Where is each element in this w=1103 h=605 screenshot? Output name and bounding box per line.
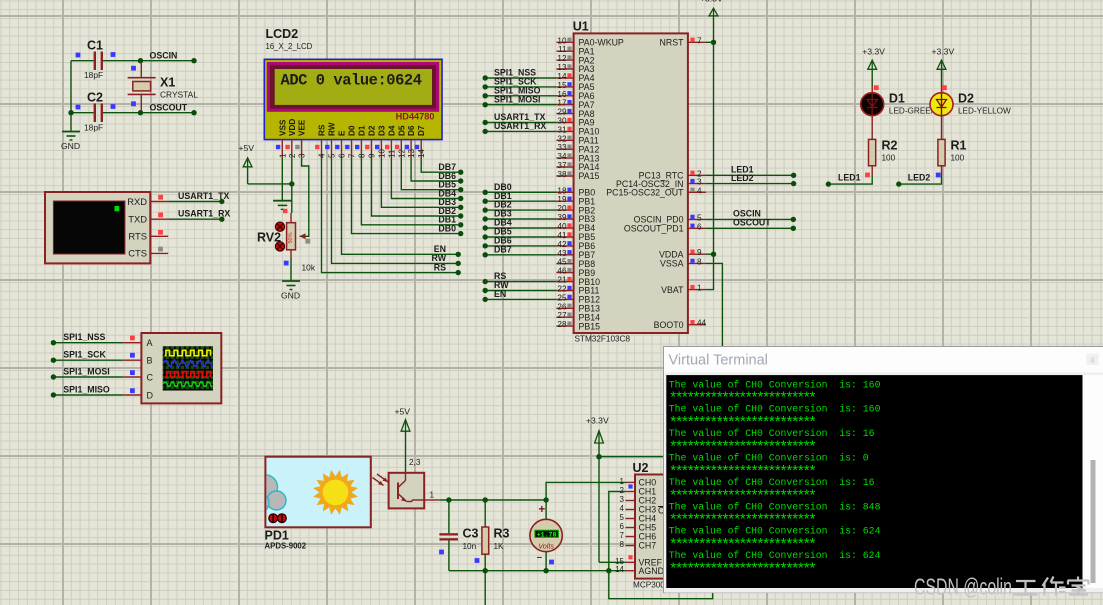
wire DB5 (LCD side) — [401, 158, 460, 190]
wire DB7 (U1 side) — [485, 254, 556, 256]
wire OSCOUT (U1 side) — [706, 227, 793, 229]
ground (LCD VSS) — [273, 200, 292, 202]
pin CTS stub — [150, 252, 168, 254]
svg-text:Volts: Volts — [538, 542, 554, 551]
svg-text:SPI1_MOSI: SPI1_MOSI — [494, 94, 540, 104]
crystal X1 — [140, 62, 142, 78]
resistor R3 1K — [484, 500, 486, 527]
svg-text:9: 9 — [368, 153, 377, 158]
svg-text:11: 11 — [387, 149, 396, 158]
svg-text:SPI1_SCK: SPI1_SCK — [63, 350, 106, 360]
wire +3.3V to D2 — [941, 69, 943, 86]
svg-text:41: 41 — [557, 231, 567, 240]
U1 pin PC13_RTC (2) — [688, 174, 706, 176]
wire USART1_TX — [168, 201, 222, 203]
pin D stub — [123, 394, 141, 396]
U2 pin CH0 (1) — [625, 481, 635, 483]
wire DB2 (LCD side) — [372, 158, 461, 216]
svg-text:EN: EN — [494, 289, 506, 299]
potentiometer RV2 — [290, 213, 292, 223]
wire CH1 to AGND — [609, 492, 626, 571]
U1 pin PB3 (39) — [556, 218, 573, 220]
U1 pin PA13 (34) — [556, 157, 573, 159]
wire DB0 (U1 side) — [485, 191, 556, 193]
light arrows from PD1 to phototransistor — [373, 478, 384, 486]
wire VREF horizontal — [599, 561, 625, 563]
wire SPI1_NSS (U1 side) — [485, 77, 556, 79]
svg-text:6: 6 — [620, 522, 625, 531]
svg-text:5: 5 — [620, 513, 625, 522]
svg-text:D1: D1 — [357, 125, 366, 136]
Virtual Terminal window — [664, 347, 1103, 593]
wire SPI1_NSS (left) — [53, 342, 123, 344]
svg-text:1: 1 — [278, 153, 287, 158]
svg-text:3: 3 — [298, 153, 307, 158]
U1 pin PB7 (43) — [556, 254, 573, 256]
U1 pin PA11 (32) — [556, 139, 573, 141]
svg-text:+3.3V: +3.3V — [700, 0, 723, 4]
U1 pin PA2 (12) — [556, 59, 573, 61]
wire DB7 (LCD side) — [421, 158, 461, 172]
U1 pin PA1 (11) — [556, 50, 573, 52]
U1 pin VBAT (1) — [688, 289, 706, 291]
svg-text:5: 5 — [697, 213, 702, 222]
wire +5V to LCD pin2 — [248, 183, 292, 185]
svg-text:29: 29 — [557, 108, 567, 117]
wire DB6 (LCD side) — [411, 158, 461, 181]
wire DB3 (LCD side) — [381, 158, 460, 207]
pin 1 stub — [424, 499, 440, 501]
U1 pin PA6 (16) — [556, 95, 573, 97]
U1 pin PB4 (40) — [556, 227, 573, 229]
svg-text:14: 14 — [615, 565, 624, 574]
svg-text:+: + — [539, 504, 546, 516]
wire OSCIN (U1 side) — [706, 218, 793, 220]
svg-text:8: 8 — [357, 153, 366, 158]
svg-text:18pF: 18pF — [84, 70, 103, 80]
svg-text:The value of CH0 Conversion i: The value of CH0 Conversion is: 624 — [669, 526, 881, 537]
wire OSCOUT — [141, 112, 195, 114]
svg-text:D4: D4 — [387, 125, 396, 136]
wire LCD pin2 VDD — [291, 158, 293, 184]
phototransistor Q1 — [389, 473, 425, 509]
scope trace blue — [164, 360, 213, 368]
svg-text:RTS: RTS — [128, 231, 147, 242]
wire SPI1_SCK (U1 side) — [485, 86, 556, 88]
svg-text:+3.3V: +3.3V — [586, 416, 609, 426]
scope trace red — [165, 372, 211, 378]
svg-text:22: 22 — [557, 285, 567, 294]
pin RTS stub — [150, 235, 168, 237]
wire DB3 (U1 side) — [485, 218, 556, 220]
U1 pin PB12 (25) — [556, 298, 573, 300]
svg-text:34: 34 — [557, 152, 567, 161]
pin TXD stub — [150, 218, 168, 220]
svg-text:1K: 1K — [494, 542, 505, 551]
svg-text:38: 38 — [557, 170, 567, 179]
U1 pin PA3 (13) — [556, 68, 573, 70]
svg-text:USART1_RX: USART1_RX — [178, 209, 230, 219]
wire DB1 (LCD side) — [361, 158, 460, 225]
wire USART1_RX (U1 side) — [485, 130, 556, 132]
U1 pin PC15-OSC32_OUT (4) — [688, 191, 706, 193]
wire USART1_TX (U1 side) — [485, 122, 556, 124]
svg-text:43: 43 — [557, 249, 567, 258]
U1 pin PA10 (31) — [556, 130, 573, 132]
svg-text:D2: D2 — [368, 125, 377, 136]
wire DB2 (U1 side) — [485, 209, 556, 211]
svg-text:D7: D7 — [417, 125, 426, 136]
wire RW (LCD side) — [332, 158, 459, 263]
svg-text:D1: D1 — [889, 92, 905, 106]
svg-text:RW: RW — [328, 122, 337, 136]
U1 pin VDDA (9) — [688, 253, 706, 255]
U1 pin PB10 (21) — [556, 281, 573, 283]
svg-text:3: 3 — [620, 495, 625, 504]
svg-text:CSDN @colin: CSDN @colin — [914, 574, 1012, 600]
wire EN (U1 side) — [485, 298, 556, 300]
capacitor C2 — [94, 104, 96, 123]
U2 pin CH3 (4) — [625, 509, 635, 511]
svg-text:OSCOUT: OSCOUT — [733, 218, 771, 228]
U1 pin PC14-OSC32_IN (3) — [688, 183, 706, 185]
svg-text:2,3: 2,3 — [409, 458, 421, 467]
svg-text:+3.3V: +3.3V — [932, 47, 955, 57]
U1 pin PB11 (22) — [556, 290, 573, 292]
svg-text:D5: D5 — [397, 125, 406, 136]
svg-text:CRYSTAL: CRYSTAL — [160, 90, 198, 100]
svg-text:U2: U2 — [633, 461, 649, 475]
svg-text:NRST: NRST — [660, 38, 685, 48]
U1 pin PB13 (26) — [556, 307, 573, 309]
svg-text:19: 19 — [557, 195, 567, 204]
svg-text:1: 1 — [620, 477, 625, 486]
svg-text:7: 7 — [348, 153, 357, 158]
LED D2 LED-YELLOW — [930, 93, 953, 116]
svg-text:LCD2: LCD2 — [266, 27, 299, 41]
svg-text:U1: U1 — [573, 20, 589, 34]
svg-text:The value of CH0 Conversion i: The value of CH0 Conversion is: 160 — [669, 404, 881, 415]
svg-text:21: 21 — [557, 276, 567, 285]
U2 pin CH5 (6) — [625, 527, 635, 529]
svg-text:10: 10 — [557, 36, 567, 45]
svg-text:50%: 50% — [288, 232, 294, 243]
U1 pin PA5 (15) — [556, 86, 573, 88]
svg-text:VSS: VSS — [278, 119, 287, 136]
svg-text:6: 6 — [338, 153, 347, 158]
svg-text:CTS: CTS — [128, 248, 147, 259]
U1 pin PB1 (19) — [556, 200, 573, 202]
wire LCD pin3 VEE to RV2 wiper — [300, 158, 309, 236]
wire CH0 from node — [546, 482, 625, 500]
wire sensor output node — [440, 499, 546, 501]
svg-text:2: 2 — [288, 153, 297, 158]
U1 pin OSCOUT_PD1 (6) — [688, 227, 706, 229]
svg-text:VBAT: VBAT — [661, 285, 684, 295]
U1 pin PB0 (18) — [556, 191, 573, 193]
U1 pin PB14 (27) — [556, 316, 573, 318]
svg-text:LED-GREEN: LED-GREEN — [889, 107, 937, 116]
light sensor PD1 APDS-9002 — [251, 457, 371, 528]
svg-text:31: 31 — [557, 125, 567, 134]
svg-text:1: 1 — [697, 284, 702, 293]
svg-text:LED2: LED2 — [731, 173, 754, 183]
svg-text:The value of CH0 Conversion i: The value of CH0 Conversion is: 16 — [669, 477, 875, 488]
node VDDA junction — [711, 252, 716, 257]
U2 pin CH1 (2) — [625, 491, 635, 493]
svg-text:The value of CH0 Conversion i: The value of CH0 Conversion is: 848 — [669, 501, 881, 512]
svg-text:RS: RS — [318, 124, 327, 136]
capacitor C3 10n — [448, 500, 450, 533]
svg-text:14: 14 — [557, 72, 567, 81]
svg-text:OSCOUT: OSCOUT — [150, 103, 188, 113]
wire LED1 (U1 side) — [706, 174, 794, 176]
svg-text:SPI1_MOSI: SPI1_MOSI — [63, 367, 109, 377]
U2 pin AGND (14) — [625, 570, 635, 572]
wire RW (U1 side) — [485, 290, 556, 292]
U1 pin PA8 (29) — [556, 113, 573, 115]
U2 pin VREF (15) — [625, 561, 635, 563]
wire LED2 (LED side) — [941, 166, 943, 176]
watermark CSDN — [914, 574, 1089, 600]
svg-text:+5V: +5V — [395, 407, 411, 417]
U1 pin PA12 (33) — [556, 148, 573, 150]
svg-text:D: D — [147, 391, 154, 401]
U1 pin PB9 (46) — [556, 272, 573, 274]
oscilloscope instrument (SPI debugger) — [141, 333, 221, 403]
pin B stub — [123, 359, 141, 361]
svg-text:46: 46 — [557, 267, 567, 276]
svg-text:5: 5 — [328, 153, 337, 158]
svg-text:The value of CH0 Conversion i: The value of CH0 Conversion is: 0 — [669, 453, 869, 464]
svg-text:OSCOUT_PD1: OSCOUT_PD1 — [624, 224, 684, 234]
svg-text:28: 28 — [557, 320, 567, 329]
svg-text:−: − — [537, 553, 543, 564]
svg-text:*************************: ************************* — [669, 562, 816, 579]
svg-text:26: 26 — [557, 302, 567, 311]
svg-text:PB15: PB15 — [579, 321, 601, 331]
U1 pin OSCIN_PD0 (5) — [688, 218, 706, 220]
svg-text:USART1_TX: USART1_TX — [178, 191, 229, 201]
node junction C2-GND rail — [68, 110, 73, 115]
U1 pin PA7 (17) — [556, 104, 573, 106]
svg-text:D2: D2 — [958, 92, 974, 106]
svg-text:EN: EN — [434, 244, 446, 254]
wire LCD pin1 VSS to ground — [281, 158, 283, 201]
ground GND (crystal) — [62, 131, 80, 133]
svg-text:+5V: +5V — [239, 143, 255, 153]
svg-text:HD44780: HD44780 — [396, 112, 435, 122]
voltmeter (Volts) — [545, 500, 547, 519]
svg-text:Virtual Terminal: Virtual Terminal — [669, 353, 768, 369]
U1 pin PA4 (14) — [556, 77, 573, 79]
U1 pin PB8 (45) — [556, 263, 573, 265]
wire voltmeter to AGND rail — [545, 552, 547, 571]
svg-text:4: 4 — [318, 153, 327, 158]
wire +3.3V to U2 VDD (behind terminal) — [599, 456, 665, 458]
svg-text:RXD: RXD — [127, 196, 147, 207]
svg-text:A: A — [147, 338, 153, 348]
svg-text:PD1: PD1 — [265, 529, 289, 543]
svg-text:10k: 10k — [302, 263, 316, 273]
svg-text:GND: GND — [281, 291, 300, 301]
pin A stub — [123, 342, 141, 344]
wire AGND rail — [449, 570, 626, 572]
svg-text:x: x — [1090, 355, 1095, 365]
U2 pin CH4 (5) — [625, 518, 635, 520]
wire D1 to resistor — [871, 115, 873, 139]
svg-text:44: 44 — [697, 319, 707, 328]
svg-text:7: 7 — [620, 531, 625, 540]
svg-text:D0: D0 — [348, 125, 357, 136]
svg-text:10: 10 — [377, 149, 386, 158]
svg-text:AGND: AGND — [639, 566, 664, 576]
svg-text:4: 4 — [620, 504, 625, 513]
svg-text:LED1: LED1 — [838, 173, 861, 183]
scope trace yellow — [165, 350, 211, 355]
svg-text:7: 7 — [697, 36, 702, 45]
svg-text:The value of CH0 Conversion i: The value of CH0 Conversion is: 624 — [669, 550, 881, 561]
svg-text:BOOT0: BOOT0 — [654, 320, 684, 330]
wire DB6 (U1 side) — [485, 245, 556, 247]
svg-text:GND: GND — [61, 141, 80, 151]
virtual terminal instrument VT1 — [45, 192, 150, 263]
svg-text:4: 4 — [697, 186, 702, 195]
wire +5V to phototransistor — [405, 431, 407, 473]
svg-text:9: 9 — [697, 248, 702, 257]
svg-text:39: 39 — [557, 213, 567, 222]
scope trace green — [164, 382, 213, 387]
resistor R2 100 — [869, 139, 876, 165]
svg-text:C2: C2 — [87, 91, 103, 105]
wire SPI1_MOSI (left) — [53, 376, 123, 378]
svg-text:DB7: DB7 — [494, 244, 512, 254]
U2 pin CH6 (7) — [625, 536, 635, 538]
svg-text:15: 15 — [557, 81, 567, 90]
svg-text:PA15: PA15 — [579, 171, 600, 181]
svg-text:C3: C3 — [463, 527, 479, 541]
svg-text:+3.3V: +3.3V — [862, 47, 885, 57]
svg-text:CH7: CH7 — [639, 541, 657, 551]
RV2 bottom to ground — [290, 250, 292, 258]
U1 pin PB5 (41) — [556, 236, 573, 238]
svg-text:12: 12 — [397, 149, 406, 158]
svg-text:R1: R1 — [951, 139, 967, 153]
svg-text:8: 8 — [620, 540, 625, 549]
svg-text:16: 16 — [557, 90, 567, 99]
wire USART1_RX — [168, 218, 222, 220]
wire SPI1_SCK (left) — [53, 359, 123, 361]
svg-text:8: 8 — [697, 257, 702, 266]
svg-text:PC15-OSC32_OUT: PC15-OSC32_OUT — [606, 188, 684, 198]
svg-text:45: 45 — [557, 258, 567, 267]
svg-text:R3: R3 — [494, 527, 510, 541]
svg-text:LED-YELLOW: LED-YELLOW — [958, 107, 1011, 116]
svg-text:100: 100 — [951, 154, 965, 163]
svg-text:SPI1_MISO: SPI1_MISO — [63, 385, 110, 395]
wire SPI1_MOSI (U1 side) — [485, 104, 556, 106]
svg-text:14: 14 — [417, 149, 426, 158]
svg-text:18pF: 18pF — [84, 123, 103, 133]
svg-text:12: 12 — [557, 54, 567, 63]
U1 pin BOOT0 (44) — [688, 324, 706, 326]
svg-text:30: 30 — [557, 117, 567, 126]
svg-text:APDS-9002: APDS-9002 — [265, 542, 307, 551]
svg-text:16_X_2_LCD: 16_X_2_LCD — [266, 42, 313, 51]
wire +3.3V vertical rail to VDDA and VBAT — [706, 16, 714, 290]
svg-text:TXD: TXD — [128, 214, 147, 225]
svg-text:40: 40 — [557, 222, 567, 231]
svg-text:6: 6 — [697, 222, 702, 231]
svg-text:B: B — [147, 356, 153, 366]
svg-text:C1: C1 — [87, 39, 103, 53]
LCD2 16x2 display body — [264, 59, 442, 139]
wire +3.3V to D1 — [871, 69, 873, 86]
wire DB4 (U1 side) — [485, 227, 556, 229]
wire VSSA down to analog ground — [706, 263, 722, 347]
svg-text:ADC 0 value:0624: ADC 0 value:0624 — [281, 72, 422, 90]
U2 pin CH7 (8) — [625, 545, 635, 547]
svg-text:10n: 10n — [463, 542, 477, 551]
wire DB5 (U1 side) — [485, 236, 556, 238]
svg-text:X1: X1 — [160, 76, 175, 90]
svg-text:25: 25 — [557, 293, 567, 302]
svg-text:STM32F103C8: STM32F103C8 — [575, 335, 631, 344]
U1 pin PB15 (28) — [556, 325, 573, 327]
svg-text:13: 13 — [407, 149, 416, 158]
wire SPI1_MISO (left) — [53, 394, 123, 396]
pin C stub — [123, 376, 141, 378]
svg-text:VEE: VEE — [298, 119, 307, 136]
svg-text:VSSA: VSSA — [660, 259, 684, 269]
svg-text:42: 42 — [557, 240, 567, 249]
svg-text:E: E — [338, 130, 347, 136]
svg-text:1: 1 — [430, 491, 435, 500]
wire +3.3V to VREF — [598, 443, 600, 562]
svg-text:D6: D6 — [407, 125, 416, 136]
wire D2 to resistor — [941, 115, 943, 139]
pin RXD stub — [150, 201, 168, 203]
svg-text:DB7: DB7 — [438, 162, 456, 172]
U1 pin PA0-WKUP (10) — [556, 41, 573, 43]
svg-text:The value of CH0 Conversion i: The value of CH0 Conversion is: 160 — [669, 379, 881, 390]
svg-text:VDD: VDD — [288, 119, 297, 136]
wire OSCIN — [141, 60, 195, 62]
U1 pin VSSA (8) — [688, 262, 706, 264]
svg-text:100: 100 — [882, 154, 896, 163]
capacitor C1 — [94, 52, 96, 71]
wire AGND under terminal — [609, 571, 713, 599]
wire C1 left rail to GND — [70, 61, 72, 131]
svg-text:37: 37 — [557, 161, 567, 170]
ground (RV2) — [282, 280, 300, 282]
svg-text:32: 32 — [557, 134, 567, 143]
wire AGND drop to edge — [484, 571, 486, 605]
wire EN (LCD side) — [342, 158, 459, 254]
wire LED2 (U1 side) — [706, 183, 794, 185]
svg-text:27: 27 — [557, 311, 567, 320]
svg-text:D3: D3 — [377, 125, 386, 136]
LED D1 LED-GREEN — [861, 93, 884, 116]
svg-text:USART1_RX: USART1_RX — [494, 121, 546, 131]
resistor R1 100 — [938, 139, 945, 165]
wire RS (U1 side) — [485, 281, 556, 283]
svg-text:11: 11 — [558, 45, 567, 54]
svg-text:LED2: LED2 — [908, 173, 931, 183]
svg-text:13: 13 — [557, 63, 567, 72]
U1 pin PA9 (30) — [556, 122, 573, 124]
svg-text:3: 3 — [697, 178, 702, 187]
